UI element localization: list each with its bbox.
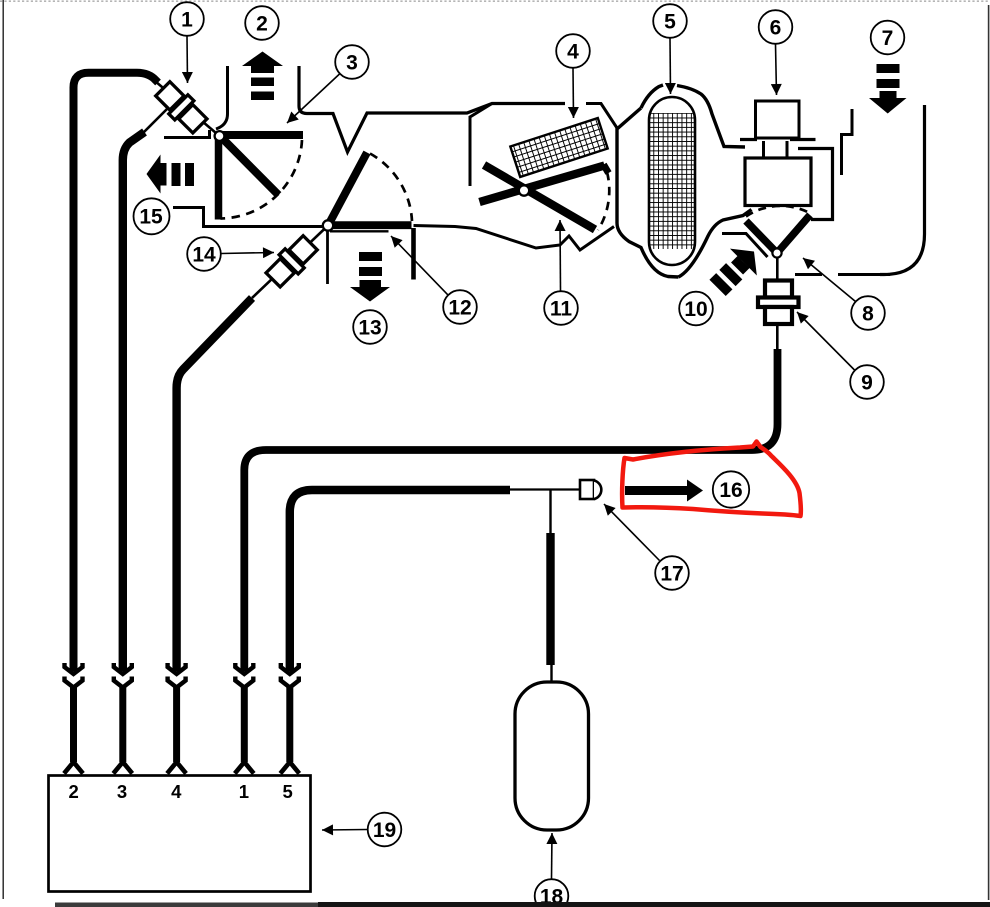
hose port3 thin stem — [142, 104, 172, 134]
check valve 9 upper — [765, 281, 792, 298]
node door11 pivot — [519, 185, 529, 195]
door8 bar right — [777, 215, 810, 253]
door3 bar horizontal — [221, 131, 303, 139]
duct inlet right wall + tear notch — [299, 66, 565, 152]
bottom bar black — [318, 902, 990, 907]
svg-text:4: 4 — [567, 41, 579, 64]
callout 3 — [335, 45, 369, 79]
vacuum source arrow 16 — [625, 486, 687, 495]
callout 16 — [713, 471, 749, 507]
callout 17 — [655, 556, 689, 590]
hose4 thin axis to actuator14 — [252, 226, 328, 299]
blower neck — [764, 141, 788, 158]
duct line right of door8 — [795, 273, 890, 276]
hose port3 — [123, 132, 145, 671]
callout 15 — [134, 198, 170, 234]
door12 bar diagonal — [328, 153, 367, 226]
evaporator housing top — [641, 85, 663, 108]
svg-text:1: 1 — [181, 9, 193, 32]
hose port1 — [244, 349, 777, 671]
callout 6 — [759, 10, 793, 44]
border left — [2, 0, 4, 899]
check valve 9 lower — [765, 307, 792, 324]
door8 swing arc dashed — [746, 206, 811, 217]
big right curve — [880, 105, 925, 275]
recirc door8 housing upper — [722, 234, 768, 258]
callout 1 — [170, 2, 204, 36]
resistor block 6 — [756, 101, 800, 138]
svg-text:6: 6 — [770, 17, 782, 40]
callout 12 — [443, 290, 477, 324]
door11 bar B — [480, 166, 605, 203]
connector 17 body — [580, 480, 594, 499]
callout 11 — [544, 291, 578, 325]
door8 bar left — [746, 221, 777, 253]
thin line hose5 to connector17 — [510, 488, 580, 490]
node door12 pivot — [323, 220, 333, 230]
airflow arrow 10 diagonal — [704, 238, 767, 301]
svg-text:2: 2 — [69, 781, 79, 802]
duct inlet left wall (air inlet 2) — [216, 66, 228, 129]
svg-text:10: 10 — [684, 298, 707, 321]
duct top right of arrow4 gap — [586, 104, 617, 129]
duct wall left of door3 — [164, 130, 210, 138]
hose port5 — [290, 490, 510, 671]
hose port2 — [74, 73, 159, 671]
air inlet step wall 7 — [842, 109, 853, 175]
hose break port4 — [167, 663, 186, 774]
evaporator core grid — [646, 113, 698, 249]
door11 bar A — [484, 165, 595, 230]
red freehand annotation — [622, 442, 801, 517]
blower flange line — [740, 138, 816, 141]
svg-text:14: 14 — [192, 244, 216, 267]
duct step near 15 — [173, 208, 322, 227]
evaporator housing left/bottom — [617, 108, 679, 277]
svg-text:8: 8 — [862, 303, 874, 326]
callout 14 — [187, 237, 221, 271]
bottom bar gray — [55, 903, 318, 907]
blower housing right — [798, 149, 833, 220]
heater left wall — [470, 104, 492, 187]
callout 4 — [556, 34, 590, 68]
airflow arrow 13 down — [359, 252, 382, 261]
svg-text:12: 12 — [448, 297, 471, 320]
tee lower thin — [550, 665, 552, 682]
svg-text:3: 3 — [346, 52, 358, 75]
callout 10 — [679, 292, 713, 326]
vacuum reservoir 18 — [515, 682, 589, 830]
tee line down to reservoir — [549, 490, 551, 534]
svg-text:11: 11 — [550, 298, 573, 321]
callout 8 — [851, 296, 885, 330]
svg-text:16: 16 — [719, 479, 742, 502]
callout 18 — [535, 879, 569, 907]
door12 bar horizontal — [328, 221, 412, 229]
hose break port3 — [113, 663, 132, 774]
svg-text:5: 5 — [282, 781, 292, 802]
duct wall below node14 — [326, 230, 329, 284]
svg-text:1: 1 — [239, 781, 249, 802]
duct bottom wall heater section — [414, 226, 615, 251]
svg-text:13: 13 — [358, 317, 381, 340]
svg-text:7: 7 — [882, 27, 894, 50]
node door8 pivot — [772, 248, 781, 257]
door12 swing arc dashed — [370, 154, 412, 222]
evaporator core capsule — [649, 97, 695, 265]
airflow arrow 15 left — [147, 155, 167, 194]
svg-text:3: 3 — [117, 781, 127, 802]
line door8 to valve9 — [776, 257, 779, 281]
duct end wall x413 — [411, 228, 416, 280]
door11 bar B end hook — [604, 165, 609, 174]
line valve9 to hose — [776, 324, 779, 350]
tee thick segment — [546, 533, 554, 665]
svg-text:17: 17 — [660, 563, 683, 586]
heater core 4 — [510, 118, 607, 177]
svg-text:19: 19 — [373, 819, 396, 842]
callout 5 — [653, 4, 687, 38]
svg-text:5: 5 — [664, 11, 676, 34]
hose1 thin axis to actuator1 — [155, 81, 220, 136]
callout 13 — [353, 310, 387, 344]
hose port4 — [177, 298, 252, 671]
hose break port2 — [64, 663, 83, 774]
callout 9 — [850, 365, 884, 399]
hose break port5 — [280, 663, 299, 774]
svg-text:2: 2 — [256, 13, 268, 36]
connector 17 dome — [594, 481, 601, 500]
vacuum motor 1 — [153, 79, 209, 135]
svg-text:9: 9 — [861, 372, 873, 395]
control box 19 — [49, 776, 311, 892]
callout 2 — [245, 6, 279, 40]
door3 swing arc dashed — [221, 140, 303, 219]
border right — [988, 5, 990, 900]
svg-text:4: 4 — [171, 781, 182, 802]
border top dotted — [0, 0, 990, 2]
blower motor body — [745, 158, 811, 206]
duct thin line right of node14 — [330, 230, 389, 232]
callout 19 — [368, 813, 402, 847]
door3 bar diagonal — [221, 137, 279, 195]
check valve 9 band — [758, 298, 799, 308]
airflow arrow 7 down — [877, 64, 900, 73]
node door3 pivot — [215, 131, 225, 141]
vacuum motor 14 — [264, 233, 320, 289]
hose break port1 — [235, 663, 254, 774]
svg-text:15: 15 — [139, 206, 163, 229]
callout 7 — [871, 21, 905, 55]
airflow arrow 2 up — [242, 52, 283, 74]
door11 swing arc dashed — [598, 172, 609, 230]
door3 bar vertical — [215, 138, 223, 220]
evaporator housing bottom-right S — [679, 210, 752, 278]
